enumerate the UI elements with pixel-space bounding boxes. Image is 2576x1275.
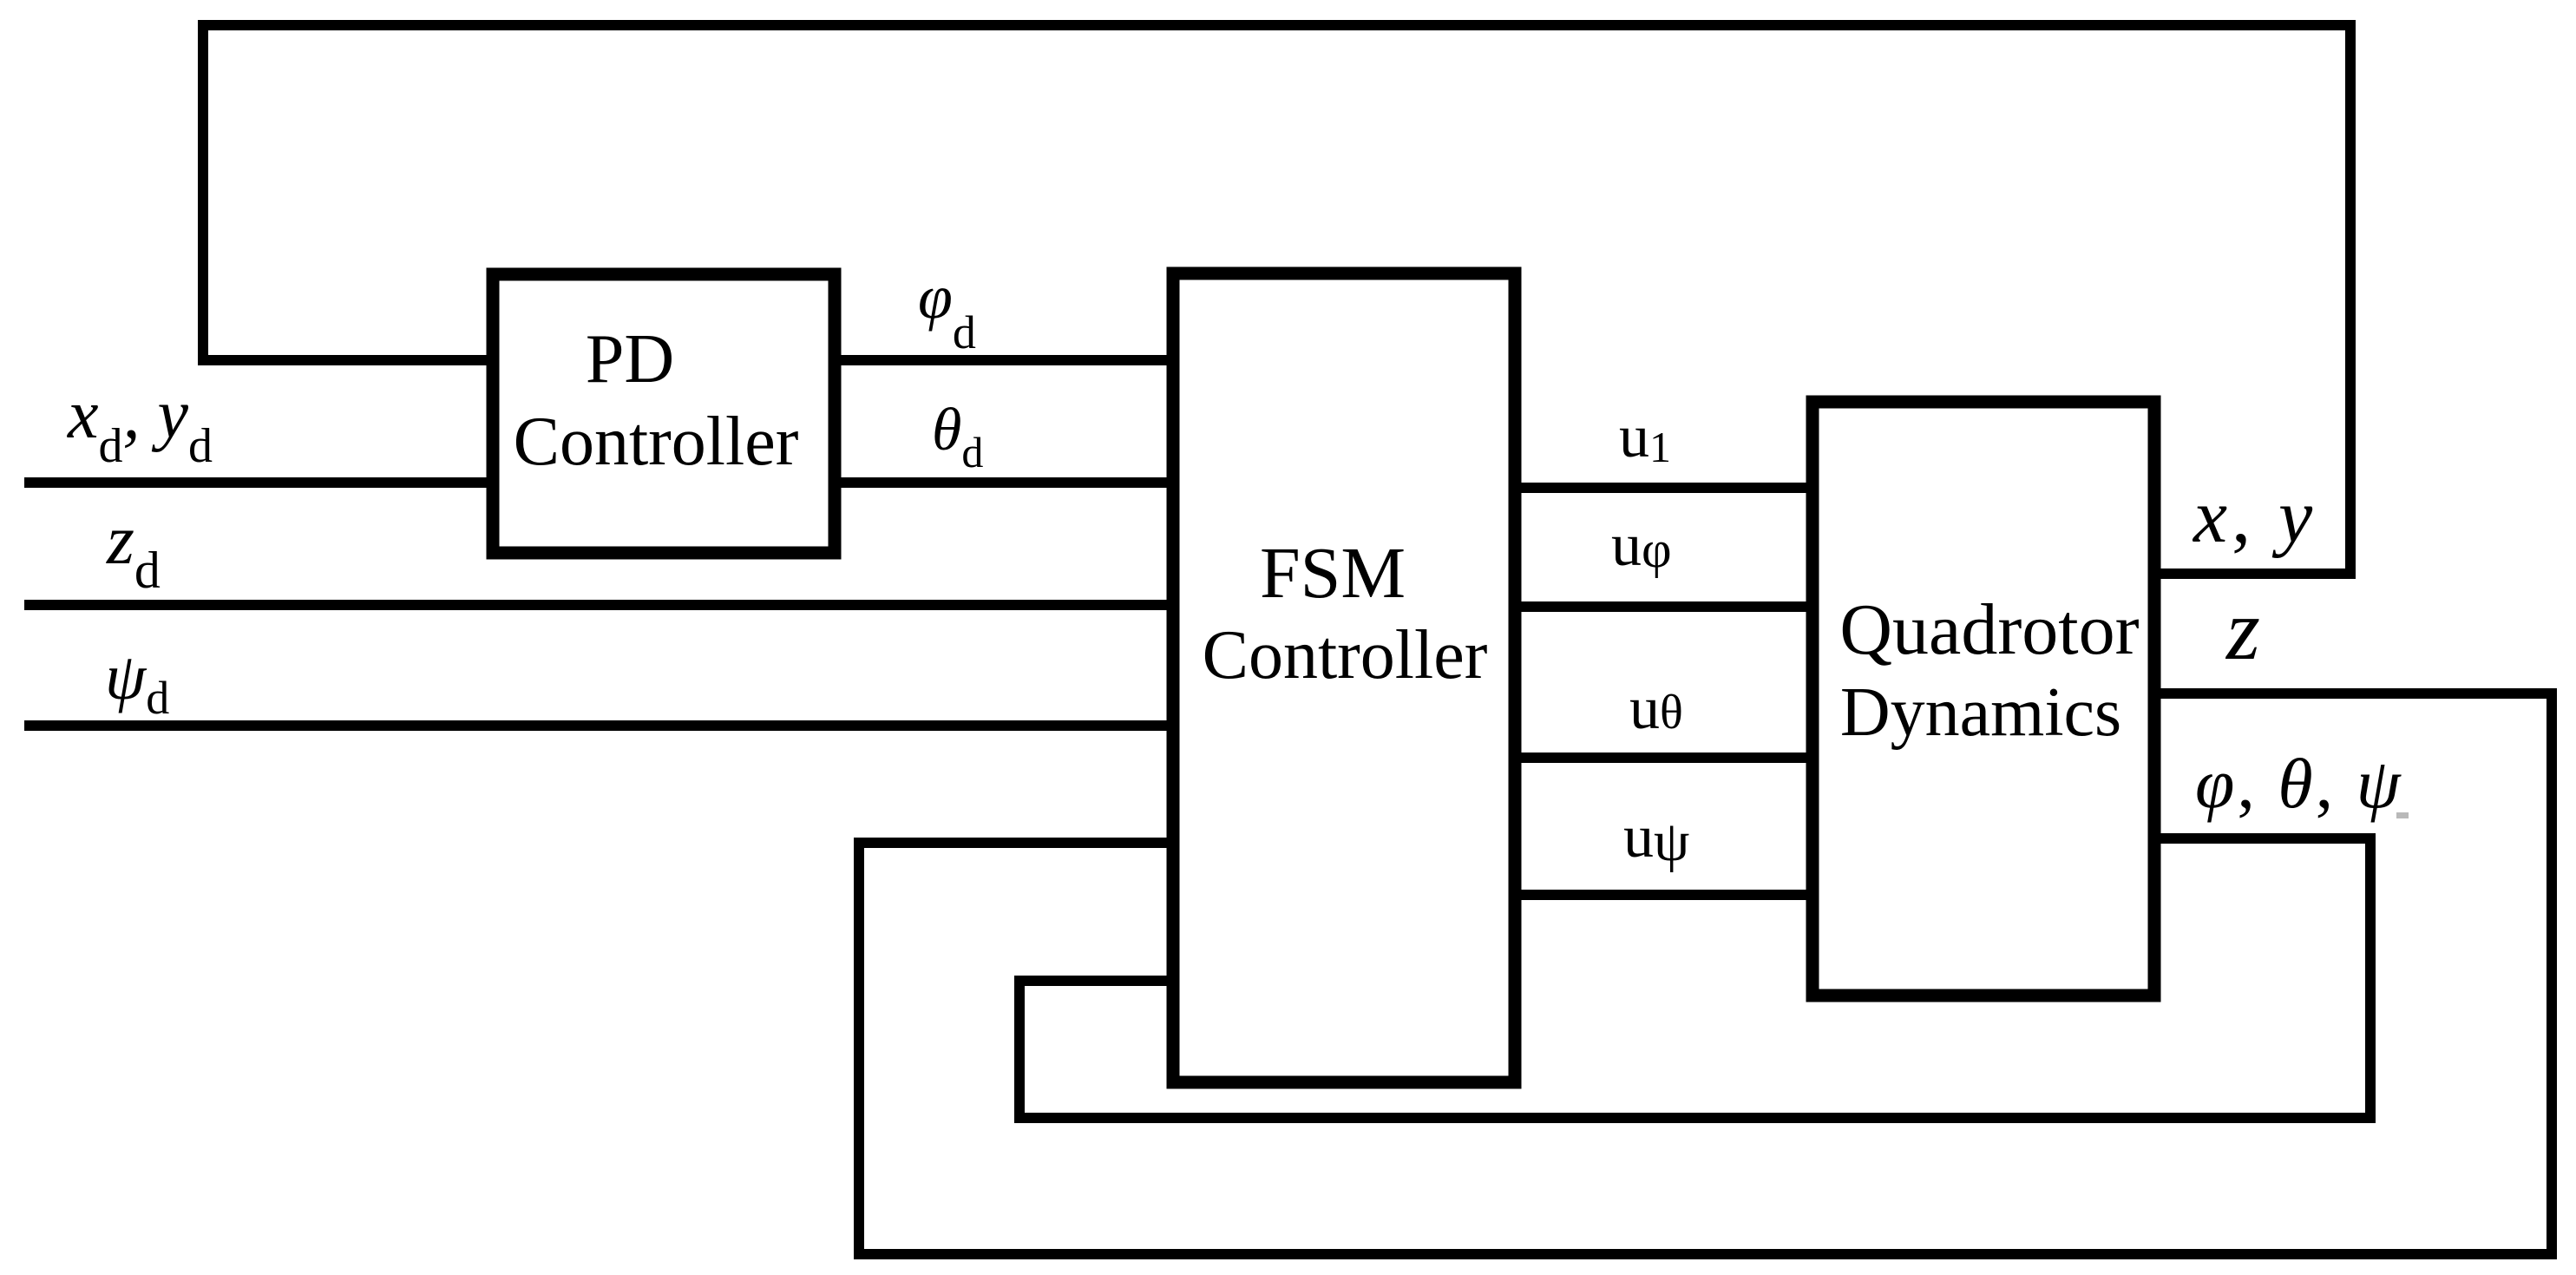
svg-text:uφ: uφ	[1611, 512, 1672, 579]
wire u_psi FSM to Quadrotor	[1515, 890, 1812, 900]
wire z feedback loop (Quadrotor z output back to FSM)	[859, 693, 2552, 1254]
svg-text:Dynamics: Dynamics	[1840, 674, 2121, 751]
svg-text:Controller: Controller	[1203, 617, 1488, 693]
wire phi,theta,psi feedback loop (Quadrotor attitude output back to FSM)	[1019, 838, 2370, 1118]
svg-text:xd, yd: xd, yd	[67, 377, 213, 473]
wire psi_d input	[24, 720, 1173, 731]
svg-text:PD: PD	[586, 321, 674, 398]
faint artifact mark after phi,theta,psi label	[2396, 812, 2409, 818]
block FSM Controller	[1173, 273, 1515, 1082]
svg-text:Quadrotor: Quadrotor	[1839, 589, 2139, 670]
wire theta_d PD to FSM	[835, 477, 1173, 488]
wire x,y feedback loop (Quadrotor output back to PD Controller input)	[203, 25, 2350, 574]
svg-text:uθ: uθ	[1629, 675, 1683, 742]
svg-text:u1: u1	[1619, 404, 1671, 471]
block PD Controller	[493, 274, 835, 553]
block Quadrotor Dynamics	[1812, 402, 2154, 996]
svg-text:φ, θ, ψ: φ, θ, ψ	[2195, 744, 2403, 823]
svg-text:Controller: Controller	[514, 404, 799, 480]
wire u_phi FSM to Quadrotor	[1515, 601, 1812, 612]
wire x_d,y_d input	[24, 477, 493, 488]
svg-text:uψ: uψ	[1623, 804, 1689, 873]
svg-text:zd: zd	[106, 500, 161, 599]
svg-text:x, y: x, y	[2192, 475, 2317, 559]
svg-text:θd: θd	[932, 397, 983, 476]
svg-text:ψd: ψd	[105, 641, 169, 724]
wire u1 FSM to Quadrotor	[1515, 483, 1812, 493]
wire z_d input	[24, 600, 1173, 610]
wire u_theta FSM to Quadrotor	[1515, 753, 1812, 763]
svg-text:FSM: FSM	[1260, 533, 1406, 614]
svg-text:φd: φd	[918, 262, 976, 358]
svg-text:z: z	[2225, 582, 2260, 678]
wire phi_d PD to FSM	[835, 355, 1173, 365]
